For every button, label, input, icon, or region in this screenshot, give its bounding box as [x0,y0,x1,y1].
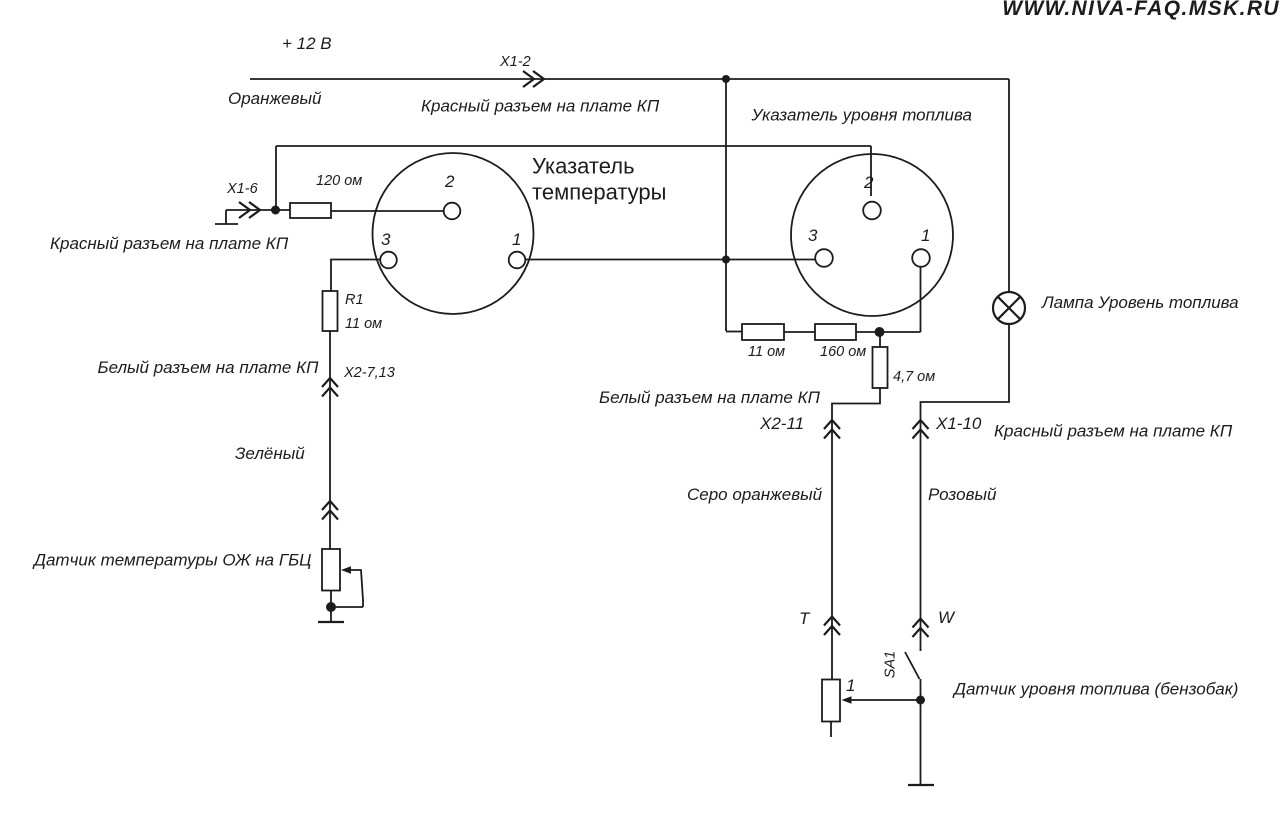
gauge fuel level circle [791,154,953,316]
wire resistor to pin2 [331,210,444,212]
pin 1 left gauge [509,252,526,269]
svg-text:Оранжевый: Оранжевый [228,89,322,108]
resistor 160 ом [815,324,856,340]
connector X1-2 chevron [523,71,544,87]
wire top +12V bus [250,78,1009,80]
svg-text:T: T [799,609,811,628]
svg-text:2: 2 [863,173,874,192]
temperature sensor body [322,549,340,591]
svg-text:X2-11: X2-11 [759,414,804,433]
resistor 11 ом [742,324,784,340]
gauge temperature circle [373,153,534,314]
svg-text:X1-2: X1-2 [499,54,531,70]
svg-text:4,7 ом: 4,7 ом [893,369,935,385]
wire below rheostat [830,722,832,738]
node junction resistor row [875,327,885,337]
pin 3 left gauge [380,252,397,269]
wire right gauge pin2 drop [870,146,872,196]
wire bus to resistor row [726,331,742,333]
svg-text:3: 3 [808,226,818,245]
node junction gauges wire [722,256,730,264]
svg-text:температуры: температуры [532,180,666,205]
svg-text:Красный разъем на плате КП: Красный разъем на плате КП [50,234,289,253]
svg-text:160 ом: 160 ом [820,344,866,360]
node junction top bus [722,75,730,83]
svg-text:1: 1 [512,230,521,249]
resistor 120 ом [290,203,331,218]
svg-text:X2-7,13: X2-7,13 [343,365,395,381]
svg-text:1: 1 [846,676,855,695]
node junction switch [916,696,925,705]
svg-text:X1-10: X1-10 [935,414,982,433]
svg-text:3: 3 [381,230,391,249]
svg-text:W: W [938,608,956,627]
wire pin1 left gauge to pin3 right gauge [525,259,815,261]
svg-text:11 ом: 11 ом [748,344,785,360]
pin 2 right gauge [863,202,881,220]
wire center vertical bus [725,79,727,331]
fuel sensor rheostat body [822,680,840,722]
ground (fuel sensor) [908,784,934,786]
wire lamp feed right [1008,79,1010,292]
svg-text:Лампа Уровень топлива: Лампа Уровень топлива [1041,293,1239,312]
node junction X1-6 [271,206,280,215]
wire lamp to X1-10 [921,324,1010,651]
svg-text:SA1: SA1 [882,651,898,678]
svg-text:11 ом: 11 ом [345,316,382,332]
wire between resistors [784,331,815,333]
svg-text:Белый разъем на плате КП: Белый разъем на плате КП [599,388,821,407]
svg-text:120 ом: 120 ом [316,173,362,189]
lamp fuel level [993,292,1025,324]
svg-text:Розовый: Розовый [928,485,997,504]
wire gauge feed left drop [275,146,277,210]
wire 4,7 resistor to X2-11 [832,388,880,680]
wire pin1 right gauge down [920,267,922,332]
switch SA1 blade [905,652,920,679]
svg-text:1: 1 [921,226,930,245]
connector X1-6 chevron [239,202,260,218]
svg-text:2: 2 [444,172,455,191]
svg-text:X1-6: X1-6 [226,181,259,197]
svg-text:Серо оранжевый: Серо оранжевый [687,485,823,504]
connector X1-10 chevron [913,420,929,439]
terminal X1-6 [215,210,290,224]
pin 2 left gauge [444,203,461,220]
node junction sensor [326,602,336,612]
resistor 4,7 ом [873,347,888,388]
svg-text:Зелёный: Зелёный [235,444,305,463]
svg-text:Красный разъем на плате КП: Красный разъем на плате КП [421,97,660,116]
connector chevron green wire [322,501,338,520]
wire wiper to junction [851,699,921,701]
wire junction to 4,7 resistor [879,332,881,347]
resistor R1 [323,291,338,331]
wire sensor to ground [330,591,332,623]
wire gauge feed horizontal [276,145,871,147]
connector X2-11 chevron [824,420,840,439]
ground (left sensor) [318,621,344,623]
wire resistor row right [856,331,921,333]
svg-text:Белый разъем на плате КП: Белый разъем на плате КП [98,358,320,377]
wire pin3 to R1 [331,260,380,292]
connector T chevron [824,617,840,636]
svg-text:Датчик температуры ОЖ на ГБЦ: Датчик температуры ОЖ на ГБЦ [32,551,312,570]
fuel sensor wiper arrow [842,696,852,703]
svg-text:Указатель уровня топлива: Указатель уровня топлива [751,106,972,125]
pin 1 right gauge [912,249,930,267]
connector X2-7,13 chevron [322,378,338,397]
svg-text:Красный разъем на плате КП: Красный разъем на плате КП [994,422,1233,441]
wire R1 down to sensor [329,331,331,549]
svg-text:Датчик уровня топлива (бензоба: Датчик уровня топлива (бензобак) [952,680,1238,699]
svg-text:WWW.NIVA-FAQ.MSK.RU: WWW.NIVA-FAQ.MSK.RU [1002,0,1280,20]
wire switch to ground [920,679,922,785]
pin 3 right gauge [815,249,833,267]
connector W chevron [913,619,929,638]
temperature sensor wiper arrow [341,566,351,573]
svg-text:+ 12 В: + 12 В [282,34,332,53]
svg-text:R1: R1 [345,292,364,308]
svg-text:Указатель: Указатель [532,154,635,179]
